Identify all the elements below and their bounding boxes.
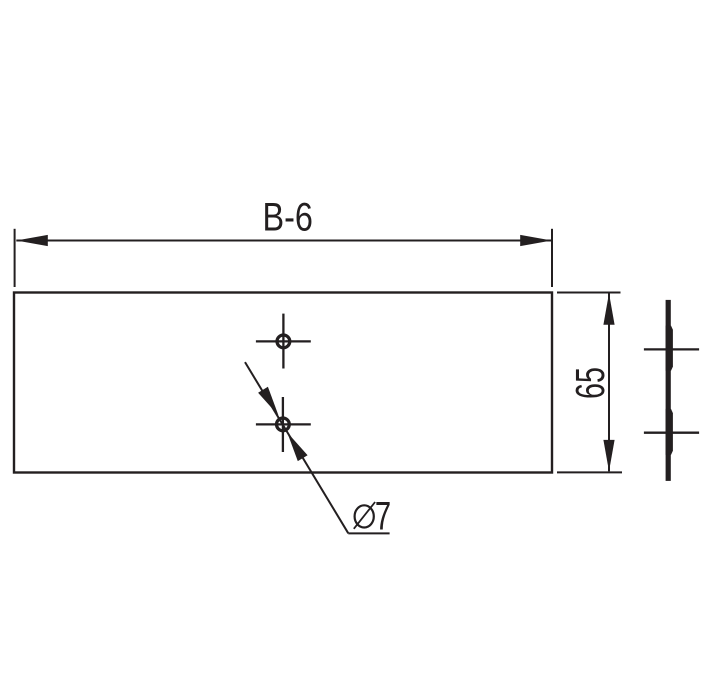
side view hole bulge upper xyxy=(666,326,673,371)
hole H1 circle (upper) xyxy=(277,335,290,348)
side view hole bulge lower xyxy=(666,409,673,455)
arrowhead down of 65 dimension xyxy=(603,440,614,472)
hole H1 centerline vertical (upper) xyxy=(282,314,284,369)
hole H2 circle (lower) xyxy=(277,418,290,431)
svg-text:7: 7 xyxy=(375,494,391,539)
arrowhead up of 65 dimension xyxy=(603,293,614,325)
extension line left (B-6 dimension) xyxy=(14,229,16,287)
extension line top (65 dimension) xyxy=(557,292,621,294)
hole H2 centerline vertical (lower) xyxy=(282,397,284,452)
side view centerline upper xyxy=(644,348,699,350)
leader arrowhead lower (pointing to hole) xyxy=(287,432,307,461)
hole diameter label Ø7 : diameter symbol ellipse xyxy=(355,505,374,527)
arrowhead right of B-6 dimension xyxy=(520,235,552,246)
arrowhead left of B-6 dimension xyxy=(16,235,48,246)
extension line bottom (65 dimension) xyxy=(557,471,622,473)
hole H2 centerline horizontal (lower) xyxy=(256,423,311,425)
dimension line 65 xyxy=(608,293,610,471)
side view plate edge (vertical bar) xyxy=(666,300,671,481)
dimension line B-6 xyxy=(16,240,551,242)
leader line through lower hole xyxy=(245,362,348,533)
hole diameter label Ø7 : diameter symbol slash xyxy=(354,502,375,529)
hole H1 centerline horizontal (upper) xyxy=(256,340,311,342)
plate outline (front view rectangle) xyxy=(14,293,552,473)
side view centerline lower xyxy=(644,432,699,434)
extension line right (B-6 dimension) xyxy=(551,229,553,287)
svg-text:65: 65 xyxy=(568,367,613,399)
leader arrowhead upper (pointing to hole) xyxy=(258,387,278,416)
leader underline below label xyxy=(348,532,389,534)
svg-text:B-6: B-6 xyxy=(263,194,313,239)
